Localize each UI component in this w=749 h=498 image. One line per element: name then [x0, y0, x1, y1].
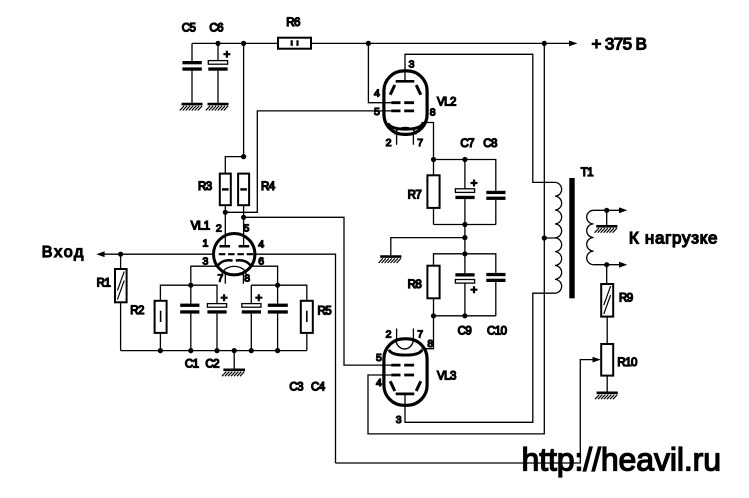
label pin 5 VL1: [244, 222, 250, 234]
wire VL2 anode pin3 to T1 primary top: [405, 54, 555, 182]
wire R8 block top rail: [434, 254, 496, 273]
wire R3 top branch: [225, 157, 243, 174]
svg-text:4: 4: [258, 239, 264, 251]
arrow load bottom: [619, 262, 627, 268]
svg-text:R1: R1: [97, 277, 111, 289]
svg-text:VL1: VL1: [191, 221, 210, 233]
transistor VL1 double triode envelope: [214, 234, 255, 275]
VL1 filament arc: [222, 266, 246, 274]
svg-text:5: 5: [376, 352, 382, 364]
wire right cathode rail: [251, 285, 306, 301]
node R4 bottom junction: [241, 215, 246, 220]
label К нагрузке: [629, 229, 718, 248]
node C4 top junction: [275, 283, 280, 288]
resistor R2: [130, 301, 166, 333]
node R1 top junction: [118, 252, 123, 257]
resistor R3: [198, 174, 231, 206]
svg-text:C8: C8: [483, 138, 497, 150]
wire ground drop: [233, 351, 235, 369]
node C1 top junction: [188, 283, 193, 288]
svg-text:3: 3: [409, 59, 415, 71]
transformer T1 secondary winding: [587, 210, 594, 264]
svg-text:8: 8: [430, 106, 436, 118]
wire secondary top to ground: [606, 210, 608, 225]
resistor R6: [278, 17, 311, 49]
capacitor C7 (polar): [455, 138, 477, 224]
svg-text:4: 4: [376, 377, 382, 389]
wire VL3 cathode pin8 riser: [422, 316, 434, 349]
resistor R10: [601, 344, 637, 376]
svg-text:C9: C9: [458, 326, 472, 338]
VL2 beam plate right: [416, 85, 421, 95]
node C2 bottom: [214, 348, 219, 353]
VL3 beam plate left: [390, 381, 395, 391]
wire R2 bottom lead: [159, 333, 161, 351]
svg-text:К нагрузке: К нагрузке: [629, 229, 718, 248]
svg-text:C1: C1: [185, 359, 199, 371]
wire R8 block bottom rail: [434, 315, 496, 317]
svg-text:2: 2: [386, 137, 392, 149]
wire R1 top lead: [120, 254, 122, 269]
wire VL1 cathode pin3: [191, 266, 219, 285]
node R3/R4 top junction: [241, 154, 246, 159]
arrow R10 wiper: [593, 357, 601, 363]
wire T1 secondary bottom output: [594, 264, 620, 266]
wire VL2 screen pin4 to supply: [368, 43, 391, 102]
VL3 filament arc: [396, 340, 414, 349]
label T1: [581, 167, 593, 179]
svg-text:R7: R7: [408, 189, 422, 201]
label VL1: [191, 221, 210, 233]
label pin 5 VL2: [374, 106, 380, 118]
wire VL2 cathode pin8 down to R7 block: [422, 123, 434, 160]
capacitor C2 (polar): [205, 294, 227, 370]
ground mid: [379, 257, 402, 263]
+375 V output arrow: [569, 41, 578, 47]
arrow load top: [619, 207, 627, 213]
svg-text:R3: R3: [198, 181, 212, 193]
VL2 anode plate: [396, 80, 415, 83]
wire T1 center tap to B+: [544, 43, 555, 238]
resistor R1: [97, 269, 127, 302]
VL2 control grid dashes pin5: [391, 110, 414, 113]
wire R1 bottom lead: [120, 302, 122, 350]
transformer T1 primary winding: [555, 182, 562, 293]
wire bottom cathode rail: [121, 350, 307, 352]
VL2 screen grid dashes pin4: [391, 101, 414, 104]
label pin 2 VL2: [386, 137, 392, 149]
VL1 heater stubs pins 7,8: [225, 273, 243, 284]
svg-text:R6: R6: [286, 17, 300, 29]
svg-text:R5: R5: [318, 306, 332, 318]
wire VL1 grid pin4 to feedback drop: [255, 254, 336, 463]
wire +375 supply rail top: [192, 42, 570, 44]
wire C1 top lead: [190, 285, 192, 303]
node B+ transformer feed junction on supply rail: [542, 41, 547, 46]
node C9 top junction: [462, 251, 467, 256]
label pin 7 VL3: [417, 329, 423, 341]
wire VL3 anode pin3 to T1 primary bottom: [405, 293, 555, 422]
capacitor C6 (polar): [208, 22, 230, 103]
resistor R4: [238, 174, 276, 206]
ground C6: [206, 104, 229, 110]
label pin 2 VL3: [386, 329, 392, 341]
svg-text:C5: C5: [182, 22, 196, 34]
label http://heavil.ru: [522, 442, 721, 478]
node VL2 screen feed junction on supply rail: [366, 41, 371, 46]
svg-text:3: 3: [396, 414, 402, 426]
node R3/R4 feed junction on supply rail: [241, 41, 246, 46]
resistor R5: [301, 301, 331, 333]
svg-text:7: 7: [218, 273, 224, 285]
svg-text:Вход: Вход: [42, 244, 85, 261]
transistor VL3 pentode envelope: [384, 339, 427, 406]
wire R7 block bottom rail: [434, 224, 496, 226]
label pin 8 VL1: [244, 273, 250, 285]
wire left cathode rail: [160, 285, 217, 303]
T1 core: [569, 178, 574, 298]
svg-text:2: 2: [386, 329, 392, 341]
svg-text:8: 8: [244, 273, 250, 285]
label pin 4 VL1: [258, 239, 264, 251]
label VL2: [437, 96, 456, 108]
svg-text:VL2: VL2: [437, 96, 456, 108]
wire R4 bottom to VL3 grid pin5: [244, 217, 393, 365]
label pin 3 VL2: [409, 59, 415, 71]
node R3 bottom junction: [223, 210, 228, 215]
ground R10: [595, 393, 618, 399]
capacitor C3 (polar): [242, 285, 303, 393]
wire R3 bottom to VL1 anode pin2: [224, 205, 226, 246]
wire mid ground branch: [391, 238, 465, 256]
svg-text:+ 375 В: + 375 В: [592, 35, 647, 54]
VL2 cathode: [388, 123, 423, 129]
label pin 8 VL2: [430, 106, 436, 118]
node secondary top junction: [604, 208, 609, 213]
wire R3 bottom to VL2 grid pin5: [225, 111, 392, 212]
svg-text:5: 5: [244, 222, 250, 234]
svg-text:R10: R10: [617, 357, 637, 369]
node secondary bottom junction: [604, 262, 609, 267]
capacitor C9 (polar): [455, 254, 477, 338]
ground main: [222, 370, 245, 376]
svg-text:R2: R2: [130, 305, 144, 317]
svg-text:C3: C3: [289, 382, 303, 394]
wire VL3 screen pin4 to B+: [368, 238, 544, 434]
resistor R7: [408, 160, 440, 225]
wire R10 bottom lead: [606, 376, 608, 392]
label pin 8 VL3: [427, 338, 433, 350]
label pin 2 VL1: [216, 222, 222, 234]
input arrow: [96, 251, 104, 257]
svg-text:C10: C10: [487, 326, 507, 338]
resistor R9: [601, 284, 633, 317]
VL3 screen grid dashes pin4: [391, 374, 414, 377]
label pin 4 VL2: [374, 88, 380, 100]
svg-text:4: 4: [374, 88, 380, 100]
node C7 bottom junction: [462, 222, 467, 227]
label pin 6 VL1: [258, 256, 264, 268]
node T1 center tap: [542, 235, 547, 240]
ground T1 secondary: [595, 226, 618, 232]
capacitor C1: [180, 304, 199, 371]
VL2 heater stubs pins 2,7: [397, 134, 414, 144]
wire feedback from R10 wiper to VL1 grid: [336, 360, 594, 463]
node C7 top junction: [462, 157, 467, 162]
wire R7 block top rail: [434, 160, 496, 191]
node mid ground junction: [462, 235, 467, 240]
VL2 beam plate left: [390, 85, 395, 95]
node C6 top junction: [215, 41, 220, 46]
node R8 bottom junction: [431, 313, 436, 318]
svg-text:T1: T1: [581, 167, 593, 179]
node R7 top junction: [431, 157, 436, 162]
wire R4 bottom to VL1 anode pin5: [243, 205, 245, 246]
label pin 1 VL1: [203, 238, 209, 250]
label + 375 B: [592, 35, 647, 54]
node C4 bottom: [275, 348, 280, 353]
svg-text:R9: R9: [619, 292, 633, 304]
wire R5 bottom lead: [306, 333, 308, 351]
svg-text:VL3: VL3: [437, 370, 456, 382]
wire mid link C7 to C9: [464, 225, 466, 254]
capacitor C4: [268, 285, 326, 393]
node C1 bottom: [188, 348, 193, 353]
wire T1 secondary top output: [594, 209, 620, 211]
wire VL1 cathode pin6: [249, 266, 277, 285]
svg-text:C7: C7: [460, 138, 474, 150]
svg-text:C6: C6: [209, 22, 223, 34]
label pin 7 VL1: [218, 273, 224, 285]
label pin 3 VL3: [396, 414, 402, 426]
VL1 anode plates: [220, 245, 250, 248]
capacitor C8: [483, 138, 505, 224]
label pin 4 VL3: [376, 377, 382, 389]
wire input to VL1 grid pin1: [100, 253, 214, 255]
VL3 beam plate right: [416, 381, 421, 391]
label pin 5 VL3: [376, 352, 382, 364]
wire R9 to R10: [606, 317, 608, 344]
wire B+ drop to R3/R4: [243, 43, 245, 156]
svg-text:C4: C4: [311, 382, 326, 394]
capacitor C5: [182, 22, 202, 103]
svg-text:7: 7: [417, 137, 423, 149]
wire secondary bottom to R9: [606, 265, 608, 284]
svg-text:7: 7: [417, 329, 423, 341]
svg-text:R4: R4: [261, 181, 276, 193]
VL1 cathode left: [218, 260, 233, 265]
VL3 anode plate: [396, 393, 415, 396]
svg-text:http://heavil.ru: http://heavil.ru: [522, 442, 721, 478]
op-amp VL2 pentode envelope: [384, 71, 427, 134]
VL1 grid dashes: [219, 253, 253, 255]
label pin 7 VL2: [417, 137, 423, 149]
VL2 filament arc: [395, 127, 417, 134]
VL1 cathode right: [236, 260, 251, 265]
ground C5: [180, 104, 203, 110]
svg-text:1: 1: [203, 238, 209, 250]
label pin 3 VL1: [203, 256, 209, 268]
VL3 cathode: [389, 350, 422, 355]
svg-text:C2: C2: [205, 359, 219, 371]
svg-text:2: 2: [216, 222, 222, 234]
label VL3: [437, 370, 456, 382]
node C9 bottom junction: [462, 313, 467, 318]
node R2 bottom: [158, 348, 163, 353]
node C3 bottom: [249, 348, 254, 353]
capacitor C10: [486, 273, 506, 338]
VL3 heater stubs pins 2,7: [397, 329, 414, 339]
node ground tap: [232, 348, 237, 353]
VL3 control grid dashes pin5: [391, 364, 414, 367]
label Вход: [42, 244, 85, 261]
svg-text:R8: R8: [408, 279, 422, 291]
svg-text:5: 5: [374, 106, 380, 118]
resistor R8: [408, 266, 440, 316]
svg-text:8: 8: [427, 338, 433, 350]
